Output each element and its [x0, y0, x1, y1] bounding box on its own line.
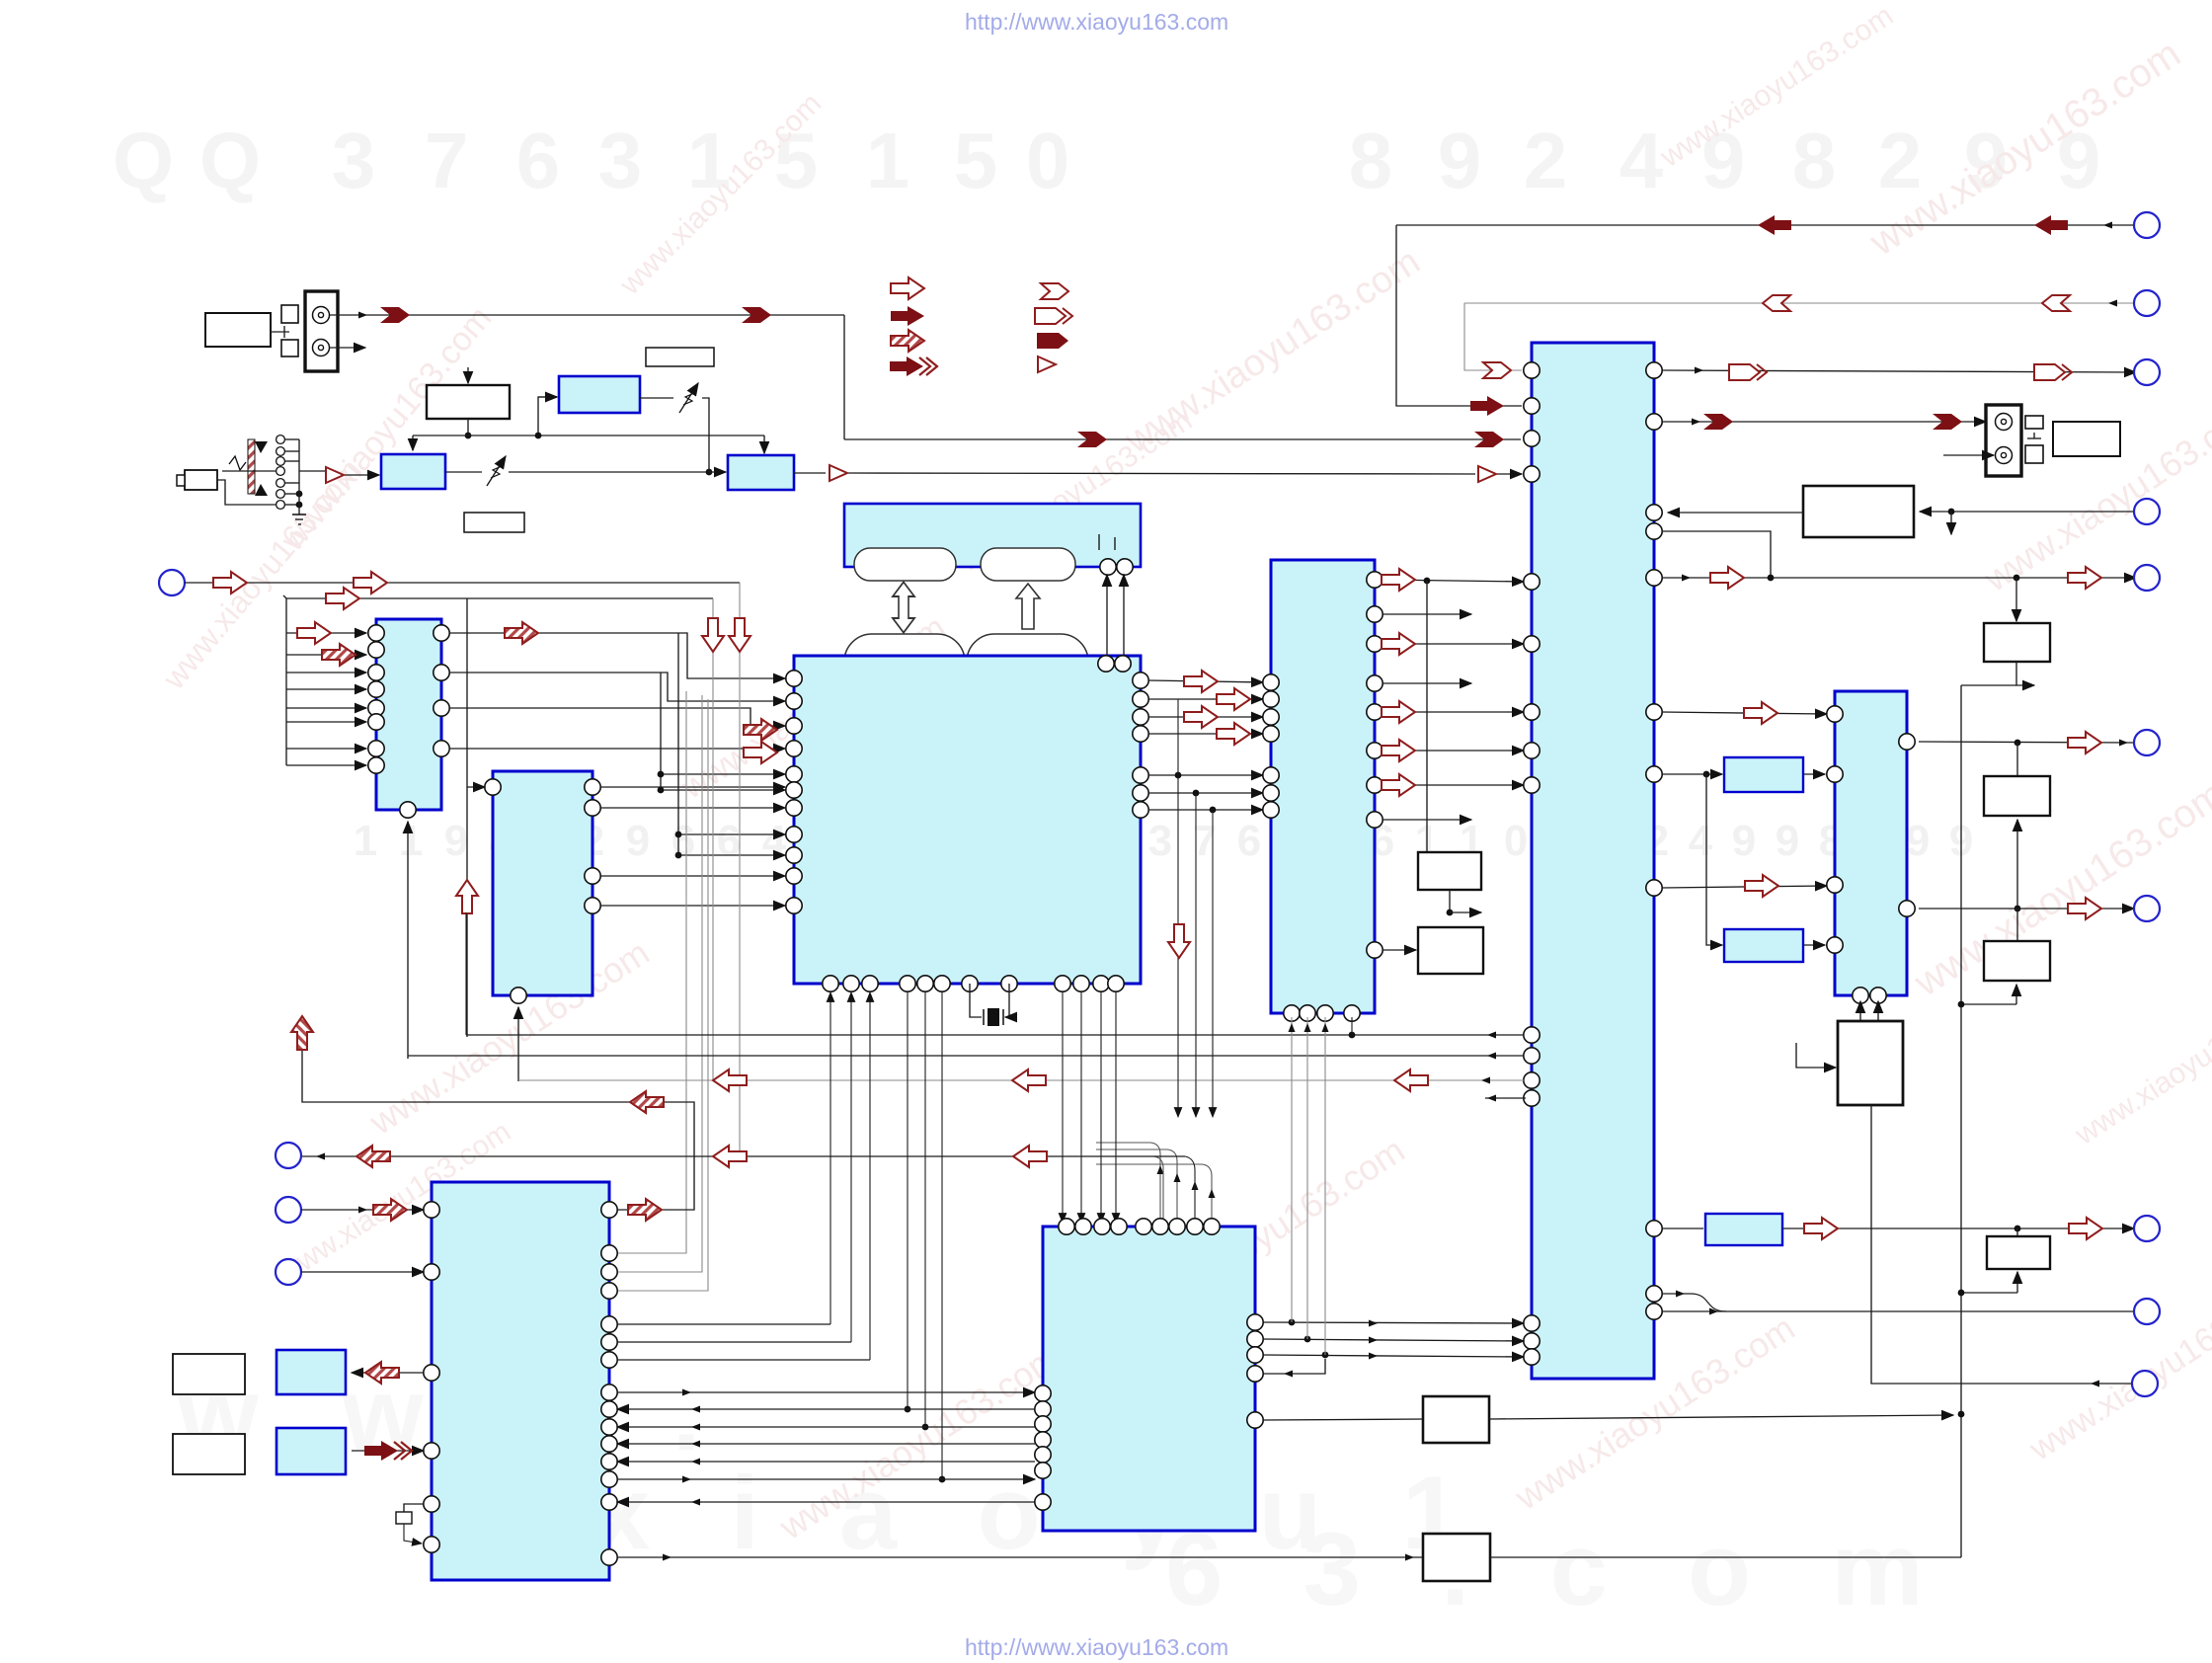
pin IC601 R375 — [1646, 362, 1662, 378]
pin main B1095 — [1073, 976, 1089, 991]
wire XA2 — [352, 1450, 424, 1452]
pin IC502 B1308 — [1284, 1005, 1300, 1021]
connector CN2 — [276, 1143, 301, 1168]
pin IC801 B1 — [1853, 988, 1868, 1003]
pin IC502 R721 — [1367, 704, 1382, 720]
wire v1324 — [1304, 1017, 1311, 1339]
connector J903 pin B — [1996, 447, 2013, 464]
svg-text:http://www.xiaoyu163.com: http://www.xiaoyu163.com — [965, 1634, 1228, 1660]
pin IC601 R899 — [1646, 880, 1662, 896]
pin IC601 R1310 — [1646, 1286, 1662, 1302]
pin IC601 L1374 — [1524, 1349, 1540, 1365]
wire t-r 899 — [1662, 886, 1827, 888]
pin IC601 L480 — [1524, 466, 1540, 482]
pin IC601 L1340 — [1524, 1315, 1540, 1331]
amp triangle A3 — [1478, 466, 1496, 482]
pin IC601 R1244 — [1646, 1221, 1662, 1236]
svg-text:9: 9 — [1732, 817, 1756, 865]
pin IC502 R692 — [1367, 675, 1382, 691]
wire RE up2 — [1877, 1001, 1879, 1021]
connector J901 optical — [305, 291, 338, 371]
arrow y307 a — [1763, 295, 1790, 311]
pin IC601 L760 — [1524, 743, 1540, 758]
svg-text:1: 1 — [399, 817, 423, 865]
pin IC701 R681 — [434, 665, 449, 680]
arrow mc3 — [1184, 706, 1218, 728]
wire v1986 — [1961, 685, 2016, 1557]
pin IC502 B1324 — [1300, 1005, 1315, 1021]
pin main L710 — [786, 693, 802, 709]
box MIC label2 — [173, 1434, 245, 1474]
wire curve t1227 — [1096, 1164, 1216, 1223]
arrow v749 down — [729, 618, 750, 652]
pin main R785 — [1133, 767, 1148, 783]
wire m-c 743 — [1148, 733, 1263, 735]
tick marks — [1099, 534, 1115, 550]
pin IC701 L641 — [368, 625, 384, 641]
wire DRV1 down — [1871, 1105, 2132, 1387]
pin IC301 L1225 — [424, 1202, 439, 1218]
wire v1308 — [1289, 1017, 1296, 1322]
wire y1048 — [466, 912, 1524, 1039]
wire band-main 2 — [1123, 575, 1125, 655]
wire J903 in2 — [1943, 454, 1994, 456]
arrow IC1 in1 — [297, 622, 331, 644]
capacitor squares J903 — [2025, 416, 2043, 463]
IC IC702 — [493, 771, 592, 995]
wire bus y441 — [413, 435, 764, 436]
block FILTER B12 — [728, 455, 794, 490]
pin IC502 L785 — [1263, 767, 1279, 783]
IC IC302 — [1043, 1227, 1255, 1531]
pin IC301 L1469 — [424, 1443, 439, 1459]
legend arrow hollow — [891, 277, 924, 299]
pin main R726 — [1133, 709, 1148, 725]
wire from CN1 — [185, 582, 740, 584]
pin IC301 R1359 — [601, 1334, 617, 1350]
pin IC301 R1269 — [601, 1245, 617, 1261]
pin IC301 L1390 — [424, 1365, 439, 1381]
pin IC702 R818 — [585, 800, 600, 816]
pin IC502 L691 — [1263, 674, 1279, 690]
pin main T2 — [1115, 656, 1131, 672]
pin IC502 R622 — [1367, 606, 1382, 622]
pin IC601 R721 — [1646, 704, 1662, 720]
pin IC601 R1328 — [1646, 1304, 1662, 1319]
connector CN3 — [276, 1197, 301, 1223]
amp triangle A2 — [829, 465, 847, 481]
arrow main735 hatched — [744, 719, 777, 741]
pin IC301 R1341 — [601, 1316, 617, 1332]
arrow y1171 a — [356, 1146, 390, 1167]
pin IC302 R1391 — [1247, 1366, 1263, 1382]
pin IC301 L1564 — [424, 1537, 439, 1552]
wire IC701 bottom down — [407, 822, 409, 1059]
pin IC601 L721 — [1524, 704, 1540, 720]
svg-text:Q: Q — [199, 117, 261, 204]
block LPF2 — [1724, 929, 1803, 962]
svg-text:9: 9 — [626, 817, 650, 865]
wire audio in — [299, 471, 379, 475]
box SPDIF-OUT label — [205, 313, 271, 347]
arrow in1 b — [354, 572, 387, 594]
connector CN1 left — [159, 570, 185, 595]
wire y1171 — [301, 1153, 1195, 1224]
box muting label — [646, 348, 714, 366]
wire v695 — [609, 691, 686, 1253]
wire to tall IC audio — [848, 473, 1475, 474]
pin IC302 R1372 — [1247, 1347, 1263, 1363]
pin main L845 — [786, 827, 802, 842]
pin IC502 R795 — [1367, 777, 1382, 793]
pin IC301 L1523 — [424, 1496, 439, 1512]
pin IC701 L658 — [368, 642, 384, 658]
pin IC302 T1133 — [1111, 1219, 1127, 1234]
arrow XA2 filled chev — [364, 1441, 412, 1461]
arrow y1225 right — [628, 1199, 662, 1221]
wire y519 — [1668, 512, 1803, 514]
IC IC301 — [432, 1182, 609, 1580]
block FILTER out wire — [794, 472, 826, 474]
pin IC701 R717 — [434, 700, 449, 716]
arrow y307 b — [2042, 295, 2070, 311]
arrow mc4 — [1217, 723, 1250, 745]
wire v2043a — [2016, 743, 2018, 776]
wire A3 to pin — [1497, 473, 1522, 475]
pin IC301 R1480 — [601, 1454, 617, 1469]
block RAM band — [844, 504, 1141, 567]
wire FLTB bottom — [1958, 985, 2016, 1007]
pin IC801 L784 — [1827, 766, 1843, 782]
wire nest1 — [1396, 225, 2136, 406]
pin IC502 R962 — [1367, 942, 1382, 958]
pin IC601 L444 — [1524, 431, 1540, 446]
arrow y377 a — [1729, 364, 1767, 380]
box FLT B — [1984, 941, 2050, 981]
svg-text:6: 6 — [1237, 817, 1261, 865]
connector J903 — [1986, 405, 2021, 476]
wire m-c 785 — [1148, 772, 1263, 779]
IC IC501 main — [794, 656, 1141, 984]
box DRV1 — [1838, 1021, 1903, 1105]
pin IC601 L411 — [1524, 398, 1540, 414]
arrow IC1 in2 hatched — [322, 644, 355, 666]
arrow ct4 — [1382, 740, 1415, 761]
svg-text:6: 6 — [516, 117, 561, 204]
wire y377 — [1662, 367, 2136, 374]
IC IC601 tall — [1532, 343, 1654, 1379]
pin IC302 L1473 — [1035, 1447, 1051, 1463]
pin IC301 R1225 — [601, 1202, 617, 1218]
svg-text:5: 5 — [954, 117, 998, 204]
wire m-c 708 — [1148, 698, 1263, 700]
wire c-t 721 — [1382, 711, 1524, 713]
wire y1328 — [1662, 1308, 2134, 1315]
pin main B881 — [862, 976, 878, 991]
wire IC1 in1 — [286, 632, 366, 634]
arrow in1 a — [213, 572, 247, 594]
block XA1 — [276, 1350, 346, 1394]
wire IC702 out1 — [600, 786, 785, 788]
wire v937 — [922, 992, 929, 1430]
wire IC1 in3 — [286, 672, 366, 673]
crystal X301 — [396, 1504, 424, 1544]
wire t-r 721 — [1662, 712, 1827, 714]
pin main R820 — [1133, 802, 1148, 818]
pin IC801 L957 — [1827, 937, 1843, 953]
arrow out1 hatched — [505, 622, 538, 644]
arrow y427 b — [1933, 414, 1962, 430]
box MIC label1 — [173, 1354, 245, 1394]
pin IC302 T1192 — [1169, 1219, 1185, 1234]
pin IC301 R1377 — [601, 1352, 617, 1368]
pin IC502 L820 — [1263, 802, 1279, 818]
wire y518 right — [1920, 509, 2134, 515]
legend arrow filled — [891, 306, 924, 326]
pin main L687 — [786, 671, 802, 686]
wire drop to B12 — [763, 436, 765, 453]
pin main B919 — [900, 976, 915, 991]
amp triangle A1 — [326, 467, 344, 483]
arrow y585 b — [2068, 567, 2101, 589]
svg-text:9: 9 — [1906, 817, 1930, 865]
pin IC701 R758 — [434, 741, 449, 756]
wire DIGITAL-OUT — [330, 312, 1521, 440]
svg-text:3: 3 — [332, 117, 376, 204]
pin IC601 R519 — [1646, 505, 1662, 520]
wire FLTC bottom — [1958, 1272, 2017, 1296]
svg-text:8: 8 — [1792, 117, 1837, 204]
switch SW901 wiper arrows — [229, 441, 268, 496]
arrow y228 a — [1758, 215, 1791, 235]
wire bottom long b — [1490, 1556, 1961, 1558]
wire J901 pin B out — [330, 347, 365, 349]
pin main L784 — [786, 766, 802, 782]
wire IC701 out1 — [449, 633, 785, 678]
wire y752 — [1919, 740, 2134, 747]
wire CN3 in — [301, 1207, 424, 1214]
wire VR2 down — [702, 398, 709, 472]
IC IC502 — [1271, 560, 1375, 1013]
pin IC502 R587 — [1367, 572, 1382, 588]
pin IC502 L803 — [1263, 785, 1279, 801]
connector right y1328 — [2134, 1299, 2160, 1324]
wire v2042b — [2016, 662, 2034, 685]
IC IC701 — [376, 619, 441, 810]
pin IC701 R641 — [434, 625, 449, 641]
arrow in2 — [326, 588, 359, 609]
wire v1211 — [1195, 793, 1197, 1117]
wire c-t 652 — [1382, 643, 1524, 645]
wire y585 — [1662, 575, 2136, 582]
wire y427 — [1662, 419, 1986, 426]
pin IC601 L1048 — [1524, 1027, 1540, 1043]
wire bus1498 — [617, 1476, 1035, 1483]
switch SW901 wires — [217, 439, 302, 515]
pin IC302 T1158 — [1136, 1219, 1151, 1234]
stadium S2 — [981, 548, 1075, 581]
svg-text:0: 0 — [1026, 117, 1070, 204]
pin main L758 — [786, 741, 802, 756]
wire v919 — [905, 992, 911, 1412]
pin IC702 R797 — [585, 779, 600, 795]
wire LPF1 out — [1803, 773, 1825, 775]
pin IC301 L1288 — [424, 1264, 439, 1280]
svg-text:9: 9 — [444, 817, 468, 865]
jack J902 — [177, 470, 217, 490]
pin IC701 L681 — [368, 665, 384, 680]
pin IC302 T1080 — [1059, 1219, 1074, 1234]
pin IC302 L1458 — [1035, 1432, 1051, 1448]
arrow v1193 down — [1168, 924, 1190, 958]
wire m-c 689 — [1148, 680, 1263, 682]
wire RE up1 — [1859, 1001, 1861, 1021]
varistor VR2 — [679, 383, 698, 413]
wire v1095 — [1080, 992, 1082, 1223]
wire c-t 692 — [1382, 682, 1471, 684]
arrow y1171 c — [1013, 1146, 1047, 1167]
crystal X501 — [970, 984, 1009, 1026]
wire m-c 803 — [1148, 790, 1263, 797]
connector right y307 — [2134, 290, 2160, 316]
arrow nest2 in — [1483, 362, 1511, 378]
legend chevron outline — [1041, 283, 1068, 299]
wire bus IC1 inputs — [285, 598, 287, 765]
pin IC301 R1445 — [601, 1419, 617, 1435]
pin IC502 L708 — [1263, 691, 1279, 707]
arrow y1244 b — [2069, 1218, 2102, 1239]
box AGC1 — [1984, 623, 2050, 662]
arrow v473 up — [456, 880, 478, 913]
pin band1 — [1100, 559, 1116, 575]
pin main B841 — [823, 976, 838, 991]
wire v1076 — [1062, 992, 1064, 1223]
connector J901 pin A — [313, 307, 330, 324]
svg-text:4: 4 — [1619, 117, 1664, 204]
arrow nest1 in — [1470, 396, 1504, 416]
pin IC601 L1112 — [1524, 1090, 1540, 1106]
arrow ct3 — [1382, 701, 1415, 723]
pin IC801 L723 — [1827, 706, 1843, 722]
svg-text:4: 4 — [762, 817, 787, 865]
pin IC601 L589 — [1524, 574, 1540, 590]
pin IC701 bottom — [400, 802, 416, 818]
wire VR1 to junction — [509, 469, 712, 476]
arrow y1171 b — [713, 1146, 747, 1167]
arrow y920 — [2068, 898, 2101, 919]
pin main B982 — [962, 976, 978, 991]
wire y920 — [1919, 908, 2134, 910]
pin IC801 L896 — [1827, 877, 1843, 893]
wire t-r 784 — [1662, 771, 1722, 778]
wire v1445 — [1426, 581, 1428, 852]
box DIV2 — [1418, 927, 1483, 974]
wire LPF2 out — [1803, 944, 1825, 946]
connector right y377 — [2134, 359, 2160, 385]
pin IC302 T1227 — [1204, 1219, 1220, 1234]
arrow DOUT a — [380, 307, 410, 323]
arrow main758 open — [744, 742, 777, 763]
pin IC801 R920 — [1899, 901, 1915, 916]
wire DRV1 in — [1796, 1043, 1836, 1068]
arrow v722 down — [702, 618, 724, 652]
arrow y752 — [2068, 732, 2101, 753]
pin IC302 L1442 — [1035, 1416, 1051, 1432]
pin main L800 — [786, 782, 802, 798]
pin IC702 L — [485, 779, 501, 795]
svg-text:6 3 . c o m: 6 3 . c o m — [1165, 1512, 1949, 1627]
block LPF3 — [1705, 1214, 1782, 1245]
pin IC601 L1094 — [1524, 1072, 1540, 1088]
connector J901 pin B — [313, 340, 330, 356]
pin IC502 B1369 — [1344, 1005, 1360, 1021]
wire y1432 junction — [1958, 1411, 1965, 1418]
pin IC801 R751 — [1899, 734, 1915, 750]
pin main R803 — [1133, 785, 1148, 801]
switch SW901 hatched bar — [248, 439, 255, 494]
wire IC702 bottom — [517, 1007, 519, 1081]
pin IC702 R917 — [585, 898, 600, 913]
pin main B1022 — [1001, 976, 1017, 991]
wire XA1 — [352, 1372, 424, 1374]
pin main T1 — [1098, 656, 1114, 672]
connector right y585 — [2134, 565, 2160, 591]
wire bus1462 — [617, 1441, 1035, 1448]
svg-text:3: 3 — [598, 117, 643, 204]
wire y1112 stub — [1485, 1095, 1526, 1102]
arrow DOUT c — [1474, 432, 1504, 447]
arrow DOUT b — [742, 307, 771, 323]
wire v1193 — [1177, 699, 1179, 1117]
arrow mc2 — [1217, 688, 1250, 710]
stadium S3 — [844, 634, 965, 691]
arrow y1116 left — [630, 1091, 664, 1113]
arrow y228 b — [2034, 215, 2068, 235]
IC IC801 right — [1835, 691, 1907, 995]
box FLT A — [1984, 776, 2050, 816]
arrow ct2 — [1382, 633, 1415, 655]
wire curve t1210 — [1153, 1156, 1199, 1223]
pin IC302 R1438 — [1247, 1412, 1263, 1428]
connector right y920 — [2134, 896, 2160, 921]
pin IC601 R585 — [1646, 570, 1662, 586]
arrow mc1 — [1184, 671, 1218, 692]
pin IC701 L698 — [368, 681, 384, 697]
pin IC301 R1462 — [601, 1436, 617, 1452]
pin IC301 R1410 — [601, 1385, 617, 1400]
wire v473 — [466, 598, 468, 1037]
svg-text:1: 1 — [354, 817, 377, 865]
wire y606 branch — [283, 595, 713, 598]
wire IC702 out3 — [600, 875, 785, 877]
box DIV1 — [1418, 852, 1481, 890]
pin main L887 — [786, 868, 802, 884]
wire IC1 in8 — [286, 764, 366, 766]
legend triangle — [1038, 356, 1056, 372]
svg-text:2: 2 — [1524, 117, 1568, 204]
wire v1115 — [1100, 992, 1102, 1223]
pin IC301 R1498 — [601, 1471, 617, 1487]
capacitor C901 squares — [271, 305, 298, 356]
svg-text:9: 9 — [1776, 817, 1799, 865]
pin IC302 L1411 — [1035, 1386, 1051, 1401]
connector J903 pin A — [1996, 414, 2013, 431]
wire y1433 — [1263, 1419, 1423, 1420]
pin IC301 R1521 — [601, 1494, 617, 1510]
pin IC601 R427 — [1646, 414, 1662, 430]
pin IC301 R1577 — [601, 1549, 617, 1565]
wire m-c 820 — [1148, 807, 1263, 814]
